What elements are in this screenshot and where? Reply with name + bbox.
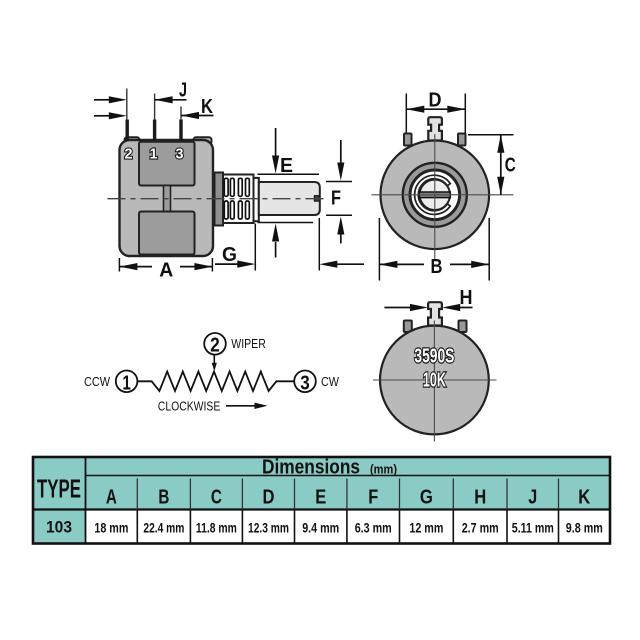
dimension D line with arrows xyxy=(406,106,465,113)
svg-text:A: A xyxy=(159,260,173,282)
dimension B label xyxy=(431,256,443,278)
svg-text:H: H xyxy=(460,287,473,309)
bushing top extension line xyxy=(258,173,320,175)
shaft top extension line xyxy=(326,181,352,183)
dimension K outside arrow left xyxy=(94,112,127,119)
svg-text:2.7 mm: 2.7 mm xyxy=(462,519,499,535)
clockwise direction arrow xyxy=(226,403,268,409)
dimension C line with arrows xyxy=(497,135,504,195)
dimension E label xyxy=(280,155,293,177)
terminal 2 circle (wiper) xyxy=(204,333,226,356)
svg-text:K: K xyxy=(578,487,590,509)
terminal 1 circle xyxy=(116,371,138,395)
table header teal background xyxy=(33,457,610,510)
inner housing stem xyxy=(164,186,171,212)
svg-text:K: K xyxy=(201,96,213,118)
svg-text:TYPE: TYPE xyxy=(37,474,81,504)
shaft slot (front view) xyxy=(419,192,450,198)
column letter G xyxy=(420,487,433,509)
svg-text:9.4 mm: 9.4 mm xyxy=(302,519,339,535)
header rows divider xyxy=(86,475,611,477)
crosshair horizontal (front view) xyxy=(372,194,514,196)
dimension C label xyxy=(505,154,516,176)
WIPER label xyxy=(231,337,265,351)
D right extension line xyxy=(464,94,466,134)
pin 1 extension line xyxy=(154,94,156,121)
svg-text:103: 103 xyxy=(46,518,72,537)
column letter C xyxy=(211,487,222,509)
dimension F arrow up xyxy=(337,217,344,244)
column letter J xyxy=(528,487,537,509)
crosshair vertical (front view) xyxy=(434,134,436,260)
svg-text:12.3 mm: 12.3 mm xyxy=(248,519,289,535)
pin 2 xyxy=(126,120,129,141)
table outer border xyxy=(33,457,610,544)
C top extension line xyxy=(468,134,514,136)
mounting tab left (front view) xyxy=(404,134,412,146)
mounting tab left (bottom view) xyxy=(404,321,412,333)
G right extension line xyxy=(318,218,320,271)
svg-text:5.11 mm: 5.11 mm xyxy=(512,519,554,535)
svg-text:1: 1 xyxy=(122,372,131,394)
svg-text:11.8 mm: 11.8 mm xyxy=(196,519,237,535)
inner housing lower section xyxy=(139,212,195,255)
B right extension line xyxy=(488,218,490,281)
svg-text:G: G xyxy=(222,244,237,266)
dimension F arrow down xyxy=(337,140,344,181)
shaft slot mark xyxy=(314,196,320,202)
svg-text:H: H xyxy=(474,487,486,509)
svg-text:G: G xyxy=(420,487,433,509)
svg-text:10K: 10K xyxy=(423,369,446,391)
dimension K label xyxy=(201,96,213,118)
column letter B xyxy=(158,487,169,509)
inner housing upper section xyxy=(139,142,195,186)
svg-text:22.4 mm: 22.4 mm xyxy=(143,519,184,535)
dimension J label xyxy=(179,80,187,102)
pin 3 xyxy=(179,120,182,141)
svg-text:E: E xyxy=(280,155,293,177)
shaft end circle (front view) xyxy=(420,180,450,210)
value 10K xyxy=(423,369,446,391)
G left extension line xyxy=(254,224,256,271)
dimension J outside arrow left xyxy=(94,96,127,103)
dimension K arrow xyxy=(181,112,214,119)
value E 9.4 mm xyxy=(302,519,339,535)
svg-text:2: 2 xyxy=(210,334,220,356)
svg-text:9.8 mm: 9.8 mm xyxy=(566,519,603,535)
terminal 3 circle xyxy=(294,371,316,395)
crosshair horizontal (bottom view) xyxy=(373,379,497,381)
svg-text:(mm): (mm) xyxy=(370,462,397,476)
svg-text:E: E xyxy=(315,487,326,509)
svg-text:3: 3 xyxy=(300,372,310,394)
value B 22.4 mm xyxy=(143,519,184,535)
value K 9.8 mm xyxy=(566,519,603,535)
svg-text:2: 2 xyxy=(125,146,133,163)
shaft bottom extension line xyxy=(326,214,352,216)
svg-text:C: C xyxy=(211,487,222,509)
svg-text:CLOCKWISE: CLOCKWISE xyxy=(158,399,221,414)
value G 12 mm xyxy=(409,519,443,535)
anti-rotation key (front view) xyxy=(428,117,442,140)
value A 18 mm xyxy=(94,519,128,535)
dimension E arrow up xyxy=(272,224,279,258)
svg-text:J: J xyxy=(179,80,187,102)
mounting tab right (bottom view) xyxy=(459,321,467,333)
column letter H xyxy=(474,487,486,509)
threaded bushing xyxy=(223,175,254,224)
value D 12.3 mm xyxy=(248,519,289,535)
letter-row separators xyxy=(137,479,558,510)
mounting tab right (front view) xyxy=(458,134,466,146)
dimension A label xyxy=(159,260,173,282)
crosshair vertical (bottom view) xyxy=(433,321,435,442)
value J 5.11 mm xyxy=(512,519,554,535)
svg-text:D: D xyxy=(263,487,275,509)
bushing bottom extension line xyxy=(258,222,314,224)
svg-text:CCW: CCW xyxy=(84,375,110,389)
svg-text:WIPER: WIPER xyxy=(231,337,265,351)
svg-text:F: F xyxy=(368,487,378,509)
retaining clip xyxy=(415,175,451,214)
bushing end flange xyxy=(254,178,259,221)
potentiometer body circle (bottom view) xyxy=(380,326,489,435)
svg-text:B: B xyxy=(431,256,443,278)
pin 1 xyxy=(153,120,156,141)
data-row separators xyxy=(137,510,558,544)
shaft xyxy=(259,182,320,215)
svg-text:3590S: 3590S xyxy=(414,346,454,368)
dimension H label xyxy=(460,287,473,309)
dimension G arrow left-pointing xyxy=(319,261,364,268)
wiper arrow xyxy=(212,355,217,372)
svg-text:J: J xyxy=(528,487,537,509)
dimension H arrow left-pointing xyxy=(442,304,472,311)
pin 2 label xyxy=(125,146,133,163)
svg-text:1: 1 xyxy=(150,146,158,163)
svg-text:CW: CW xyxy=(321,375,339,389)
anti-rotation key (bottom view) xyxy=(428,302,442,325)
dimension A line with arrows xyxy=(119,263,212,270)
CLOCKWISE label xyxy=(158,399,221,414)
type value 103 xyxy=(46,518,72,537)
dimension G arrow right-pointing xyxy=(215,261,255,268)
svg-text:B: B xyxy=(158,487,169,509)
svg-text:6.3 mm: 6.3 mm xyxy=(355,519,392,535)
potentiometer body circle (front view) xyxy=(381,141,490,250)
svg-text:A: A xyxy=(106,487,117,509)
svg-text:18 mm: 18 mm xyxy=(94,519,128,535)
dimension G label xyxy=(222,244,237,266)
type value cell teal background xyxy=(33,510,86,544)
svg-text:F: F xyxy=(331,188,341,210)
value F 6.3 mm xyxy=(355,519,392,535)
mounting washer xyxy=(215,173,224,226)
pin 3 extension line xyxy=(180,107,182,121)
svg-text:Dimensions: Dimensions xyxy=(262,456,360,478)
body cover lip right xyxy=(194,137,212,144)
Dimensions header text xyxy=(262,456,397,478)
A left extension line xyxy=(118,258,120,272)
dimension H arrow right-pointing xyxy=(384,304,428,311)
svg-text:3: 3 xyxy=(176,146,184,163)
body cover lip left xyxy=(125,137,140,144)
svg-text:D: D xyxy=(429,89,442,111)
svg-text:C: C xyxy=(505,154,516,176)
column letter F xyxy=(368,487,378,509)
column letter D xyxy=(263,487,275,509)
retaining clip end hooks xyxy=(445,185,448,204)
pin 3 label xyxy=(176,146,184,163)
pin 1 label xyxy=(150,146,158,163)
dimension B line with arrows xyxy=(379,261,489,268)
resistor element R (zigzag) xyxy=(138,372,295,391)
column letter E xyxy=(315,487,326,509)
header/data divider xyxy=(33,508,610,510)
potentiometer body (side view) xyxy=(120,140,214,256)
dimension E arrow down xyxy=(272,128,279,174)
CW label xyxy=(321,375,339,389)
pin 2 extension line xyxy=(126,89,128,121)
TYPE header text xyxy=(37,474,81,504)
white ring (front view) xyxy=(410,170,460,220)
part number 3590S xyxy=(414,346,454,368)
A right extension line xyxy=(211,258,213,272)
bushing ring (front view) xyxy=(403,163,467,227)
TYPE column divider xyxy=(85,457,87,544)
centerline xyxy=(108,198,329,200)
value H 2.7 mm xyxy=(462,519,499,535)
B left extension line xyxy=(378,218,380,281)
CCW label xyxy=(84,375,110,389)
dimension F label xyxy=(331,188,341,210)
dimension D label xyxy=(429,89,442,111)
svg-text:12 mm: 12 mm xyxy=(409,519,443,535)
D left extension line xyxy=(405,94,407,134)
column letter A xyxy=(106,487,117,509)
value C 11.8 mm xyxy=(196,519,237,535)
column letter K xyxy=(578,487,590,509)
dimension J arrow xyxy=(155,96,187,103)
